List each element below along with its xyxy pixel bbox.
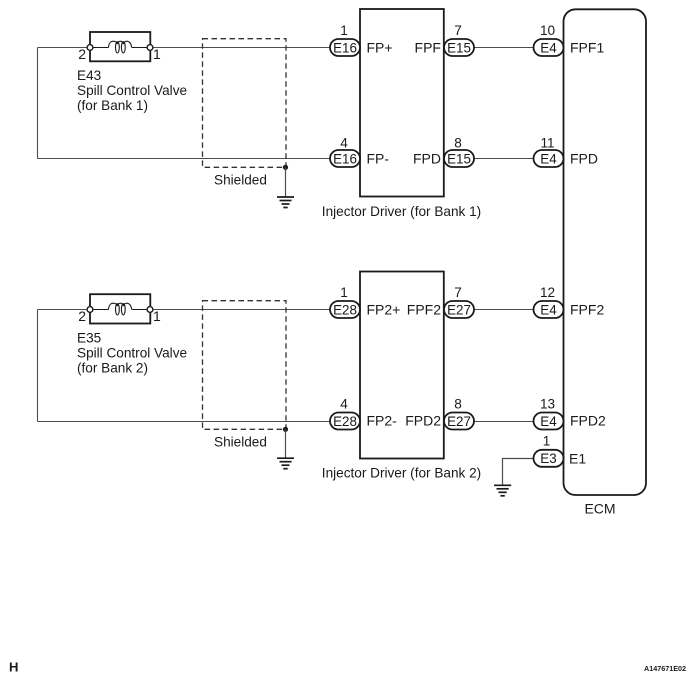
- svg-text:FPF2: FPF2: [407, 302, 441, 318]
- connector E4 pin 12: [534, 301, 564, 318]
- svg-text:13: 13: [540, 396, 555, 411]
- svg-text:E4: E4: [540, 302, 557, 317]
- svg-text:Injector Driver (for Bank 2): Injector Driver (for Bank 2): [322, 466, 481, 481]
- ground (Bank 1 shield): [277, 197, 294, 208]
- wire: left vertical (Bank 2): [37, 310, 39, 422]
- wire: shield dot down to ground (Bank 1): [285, 167, 287, 196]
- svg-text:FP+: FP+: [367, 40, 393, 56]
- svg-text:8: 8: [454, 136, 462, 151]
- injector driver box (Bank 2): [360, 272, 444, 459]
- svg-text:Shielded: Shielded: [214, 173, 267, 188]
- wire: E15 pin8 to E4 pin11: [474, 158, 534, 160]
- svg-text:E43: E43: [77, 68, 101, 83]
- wire: E27 pin8 to E4 pin13: [474, 421, 534, 423]
- svg-text:FPD: FPD: [570, 151, 598, 167]
- svg-text:1: 1: [153, 308, 161, 324]
- svg-text:(for Bank 1): (for Bank 1): [77, 98, 148, 113]
- label E35 Spill Control Valve (for Bank 2): [77, 331, 187, 376]
- svg-text:FPD: FPD: [413, 151, 441, 167]
- svg-text:E35: E35: [77, 331, 101, 346]
- svg-text:12: 12: [540, 285, 555, 300]
- svg-text:ECM: ECM: [584, 501, 615, 517]
- svg-text:E4: E4: [540, 40, 557, 55]
- connector E27 pin 7: [444, 301, 474, 318]
- connector E16 pin 1: [330, 39, 360, 56]
- svg-text:11: 11: [540, 136, 554, 151]
- terminal pin 2 of E35: [87, 307, 93, 313]
- svg-text:FP2-: FP2-: [367, 413, 398, 429]
- wire: shield dot down to ground (Bank 2): [285, 429, 287, 458]
- label E43 Spill Control Valve (for Bank 1): [77, 68, 187, 113]
- svg-text:1: 1: [340, 23, 348, 38]
- svg-text:FPF1: FPF1: [570, 40, 604, 56]
- svg-text:E16: E16: [333, 40, 357, 55]
- wire: E35 pin1 to E28 pin1: [150, 309, 330, 311]
- svg-text:4: 4: [340, 396, 348, 411]
- svg-text:7: 7: [454, 23, 462, 38]
- svg-text:E3: E3: [540, 451, 556, 466]
- svg-text:10: 10: [540, 23, 556, 38]
- svg-text:Spill Control Valve: Spill Control Valve: [77, 83, 187, 98]
- svg-text:E4: E4: [540, 151, 557, 166]
- svg-text:FPD2: FPD2: [405, 413, 441, 429]
- connector E4 pin 10: [534, 39, 564, 56]
- svg-text:2: 2: [78, 46, 86, 62]
- svg-text:E16: E16: [333, 151, 357, 166]
- svg-text:E15: E15: [447, 151, 471, 166]
- wire: E43 pin1 to E16 pin1: [150, 47, 330, 49]
- terminal pin 1 of E35: [147, 307, 153, 313]
- spill control valve E43 body: [90, 32, 150, 61]
- svg-text:2: 2: [78, 308, 86, 324]
- svg-text:(for Bank 2): (for Bank 2): [77, 360, 148, 375]
- connector E3 pin 1: [534, 450, 564, 467]
- connector E15 pin 8: [444, 150, 474, 167]
- coil of E35: [108, 303, 131, 315]
- connector E4 pin 13: [534, 413, 564, 430]
- svg-text:H: H: [9, 660, 18, 675]
- svg-text:A147671E02: A147671E02: [644, 664, 686, 673]
- wire: E27 pin7 to E4 pin12: [474, 309, 534, 311]
- svg-text:E1: E1: [569, 450, 586, 466]
- svg-text:1: 1: [543, 433, 551, 448]
- connector E28 pin 1: [330, 301, 360, 318]
- svg-text:Spill Control Valve: Spill Control Valve: [77, 345, 187, 360]
- wire: bottom run to E16 pin4 (Bank 1): [38, 158, 331, 160]
- connector E28 pin 4: [330, 413, 360, 430]
- svg-text:E4: E4: [540, 414, 557, 429]
- wire: left vertical (Bank 1): [37, 48, 39, 159]
- svg-text:E27: E27: [447, 302, 471, 317]
- svg-text:4: 4: [340, 136, 348, 151]
- terminal pin 1 of E43: [147, 45, 153, 51]
- spill control valve E35 body: [90, 294, 150, 323]
- connector E27 pin 8: [444, 413, 474, 430]
- connector E15 pin 7: [444, 39, 474, 56]
- wire: E43 pin2 to left vertical: [38, 47, 91, 49]
- ground (Bank 2 shield): [277, 458, 294, 469]
- ECM box: [564, 9, 647, 495]
- connector E16 pin 4: [330, 150, 360, 167]
- injector driver box (Bank 1): [360, 9, 444, 197]
- junction dot: shield to ground (Bank 2): [283, 427, 288, 432]
- svg-text:Shielded: Shielded: [214, 435, 267, 450]
- ground (E3/E1): [494, 485, 511, 496]
- svg-text:FP2+: FP2+: [367, 302, 401, 318]
- svg-text:E15: E15: [447, 40, 471, 55]
- svg-text:FPF2: FPF2: [570, 302, 604, 318]
- shield box (Bank 1): [203, 39, 287, 168]
- terminal pin 2 of E43: [87, 45, 93, 51]
- wire: E15 pin7 to E4 pin10: [474, 47, 534, 49]
- svg-text:1: 1: [340, 285, 348, 300]
- svg-text:7: 7: [454, 285, 462, 300]
- coil of E43: [108, 41, 131, 53]
- wire: E3 to ground elbow: [503, 459, 534, 485]
- wire: bottom run to E28 pin4 (Bank 2): [38, 421, 331, 423]
- junction dot: shield to ground (Bank 1): [283, 165, 288, 170]
- connector E4 pin 11: [534, 150, 564, 167]
- svg-text:E28: E28: [333, 302, 357, 317]
- svg-text:E28: E28: [333, 414, 357, 429]
- svg-text:E27: E27: [447, 414, 471, 429]
- svg-text:Injector Driver (for Bank 1): Injector Driver (for Bank 1): [322, 204, 481, 219]
- svg-text:1: 1: [153, 46, 161, 62]
- svg-text:FP-: FP-: [367, 151, 390, 167]
- wire: E35 pin2 to left vertical: [38, 309, 91, 311]
- shield box (Bank 2): [203, 301, 287, 430]
- svg-text:8: 8: [454, 396, 462, 411]
- svg-text:FPF: FPF: [415, 40, 441, 56]
- svg-text:FPD2: FPD2: [570, 413, 606, 429]
